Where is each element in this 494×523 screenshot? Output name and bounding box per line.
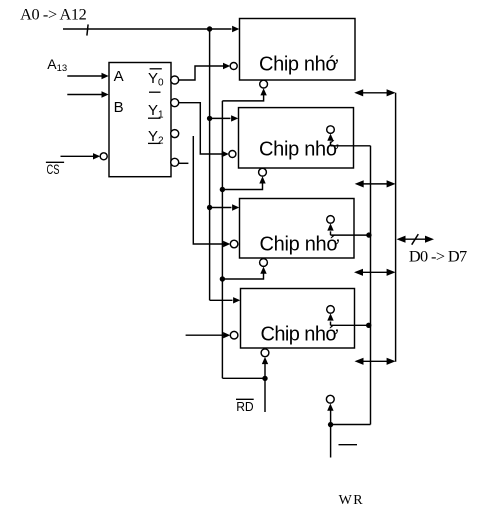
wire WR bottom corner [331, 424, 371, 426]
D0-D7 stub double arrow [397, 236, 435, 243]
junction dot RD chip3 [220, 276, 225, 281]
junction dot address to chip3 [207, 205, 212, 210]
data bus arrow chip3 [354, 269, 396, 276]
stub wire from Y3 bubble [179, 162, 189, 164]
wire WE riser chip2 [327, 134, 370, 146]
junction dot RD chip2 [220, 187, 225, 192]
wire address tap to chip3 [210, 204, 240, 210]
wire RD to chip2 OE [222, 176, 265, 189]
inverter bubble chip4 CS [230, 331, 238, 339]
junction dot WR bottom [328, 422, 333, 427]
output bubble Y0 [171, 76, 179, 84]
label Chip nho 3 [260, 234, 340, 256]
inverter bubble decoder CS input [100, 153, 107, 160]
output bubble Y2 [171, 130, 179, 138]
wire RD bus vertical [221, 101, 223, 378]
inverter bubble chip2 CS [229, 151, 236, 158]
wire to chip4 CS [186, 332, 231, 338]
label Chip nho 4 [261, 323, 339, 345]
data bus arrow chip2 [355, 180, 396, 187]
output bubble Y3 [171, 158, 179, 166]
pin label Y0 with overline [148, 69, 164, 89]
memory chip 1 box [240, 19, 356, 81]
label RD with overline [236, 399, 254, 414]
label Chip nho 1 [259, 54, 339, 76]
svg-text:Chip nhớ: Chip nhớ [261, 323, 339, 345]
junction dot address bus top [207, 26, 212, 31]
pin label B [114, 99, 124, 116]
svg-text:A0 -> A12: A0 -> A12 [20, 5, 87, 24]
svg-text:WR: WR [339, 493, 365, 508]
svg-text:Chip nhớ: Chip nhớ [259, 54, 339, 76]
stray overline above Y1 [149, 91, 161, 93]
data bus arrow chip4 [355, 358, 396, 365]
svg-text:Y0: Y0 [148, 70, 164, 88]
bubble chip3 OE [260, 259, 268, 267]
wire input A to decoder [67, 73, 108, 79]
pin label Y2 underlined [148, 128, 164, 146]
wire WR riser to bubble [327, 404, 333, 425]
bubble chip2 WE [327, 126, 335, 134]
label Chip nho 2 [259, 139, 339, 161]
bubble chip4 WE [327, 306, 335, 314]
memory chip 3 box [240, 199, 355, 259]
junction dot address to chip2 [207, 116, 212, 121]
wire WR bus vertical [370, 146, 372, 425]
bus-width slash on D0-D7 stub [412, 234, 419, 245]
bubble chip1 OE [260, 80, 268, 88]
svg-text:D0 -> D7: D0 -> D7 [409, 246, 467, 265]
pin label Y1 underlined [148, 102, 164, 120]
wire WE riser chip3 [327, 223, 370, 235]
wire Y0 to chip1 CS [179, 63, 231, 80]
label A13 [47, 56, 67, 74]
wire WE riser chip4 [327, 313, 370, 325]
junction dot WR chip3 [366, 232, 371, 237]
wire RD to chip3 OE [222, 267, 266, 279]
label D0 -> D7 [409, 246, 467, 265]
svg-text:CS: CS [47, 162, 60, 177]
wire RD bottom corner to chip4 [222, 377, 265, 379]
svg-text:RD: RD [236, 399, 254, 414]
junction dot WR chip4 [366, 323, 371, 328]
label A0 -> A12 [20, 5, 87, 24]
wire input CS to decoder [61, 153, 101, 159]
wire RD source tail [264, 378, 266, 412]
svg-text:Chip nhớ: Chip nhớ [260, 234, 340, 256]
wire Y1 to chip2 CS [179, 103, 229, 158]
bubble chip3 WE [327, 216, 335, 224]
wire Y2 line to chip3 CS [193, 136, 230, 247]
junction dot RD chip4 [262, 376, 267, 381]
inverter bubble chip3 CS [230, 240, 238, 248]
bubble WR terminal [326, 395, 334, 403]
svg-text:Chip nhớ: Chip nhớ [259, 139, 339, 161]
memory chip 2 box [239, 108, 354, 168]
bubble chip2 OE [259, 168, 267, 176]
inverter bubble chip1 CS [230, 63, 237, 70]
label WR [339, 493, 365, 508]
wire address bus horizontal A0-A12 [63, 26, 239, 32]
output bubble Y1 [171, 99, 179, 107]
wire address tap to chip2 [210, 115, 239, 121]
wire address tap to chip4 [210, 297, 241, 303]
pin label A [114, 68, 124, 85]
wire WR tail below [330, 425, 332, 458]
wire RD riser to chip4 OE [262, 357, 268, 378]
memory chip 4 box [241, 289, 355, 349]
bus-width tick on address bus [87, 24, 88, 35]
label CS with overline [46, 162, 64, 177]
svg-text:A: A [114, 68, 124, 85]
stray overline mark for WR [339, 444, 358, 446]
data bus vertical [395, 93, 397, 362]
wire address bus vertical [209, 29, 211, 300]
decoder U1 box [109, 63, 171, 177]
wire input B to decoder [67, 91, 108, 97]
bubble chip4 OE [261, 349, 269, 357]
data bus arrow chip1 [354, 89, 395, 96]
wire RD to chip1 OE [222, 88, 266, 101]
svg-text:A13: A13 [47, 56, 67, 74]
svg-text:B: B [114, 99, 124, 116]
